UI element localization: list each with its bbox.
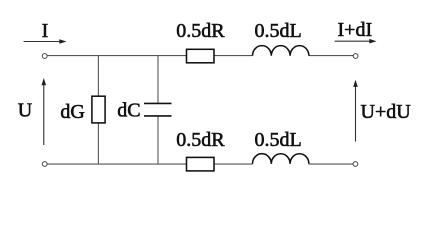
wire top-middle segment	[214, 55, 253, 57]
arrow current I+dI	[335, 39, 377, 44]
svg-text:U+dU: U+dU	[361, 101, 412, 123]
wire bottom-middle segment	[214, 163, 253, 165]
wire top-right segment	[309, 55, 353, 57]
resistor 0.5dR top	[187, 49, 215, 63]
wire bottom-right segment	[309, 163, 353, 165]
wire bottom-left segment	[47, 163, 186, 165]
svg-text:0.5dL: 0.5dL	[255, 129, 302, 151]
terminal bottom-right	[353, 162, 358, 167]
resistor dG	[92, 96, 105, 123]
svg-text:I+dI: I+dI	[338, 19, 373, 41]
wire dC branch upper	[157, 56, 159, 104]
terminal top-right	[353, 54, 358, 59]
svg-text:dC: dC	[117, 99, 140, 121]
svg-text:0.5dL: 0.5dL	[255, 20, 302, 42]
arrow voltage U	[42, 78, 47, 145]
resistor 0.5dR bottom	[187, 157, 215, 171]
inductor 0.5dL bottom	[253, 154, 309, 164]
wire dG branch lower	[97, 123, 99, 164]
svg-text:0.5dR: 0.5dR	[176, 20, 225, 42]
capacitor dC	[144, 103, 172, 116]
svg-text:0.5dR: 0.5dR	[176, 129, 225, 151]
wire dC branch lower	[157, 116, 159, 164]
terminal bottom-left	[42, 162, 47, 167]
inductor 0.5dL top	[253, 46, 309, 56]
svg-text:U: U	[18, 99, 33, 121]
svg-text:I: I	[42, 20, 49, 42]
svg-text:dG: dG	[60, 101, 84, 123]
arrow voltage U+dU	[353, 80, 358, 142]
terminal top-left	[42, 54, 47, 59]
wire dG branch upper	[97, 56, 99, 97]
wire top-left segment	[47, 55, 186, 57]
arrow current I	[24, 39, 67, 44]
